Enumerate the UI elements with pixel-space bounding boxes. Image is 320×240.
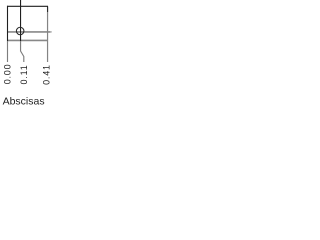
svg-text:Abscisas: Abscisas — [3, 96, 45, 108]
svg-text:0.00: 0.00 — [3, 64, 13, 85]
svg-text:0.11: 0.11 — [19, 64, 29, 84]
svg-text:0.41: 0.41 — [42, 64, 52, 85]
